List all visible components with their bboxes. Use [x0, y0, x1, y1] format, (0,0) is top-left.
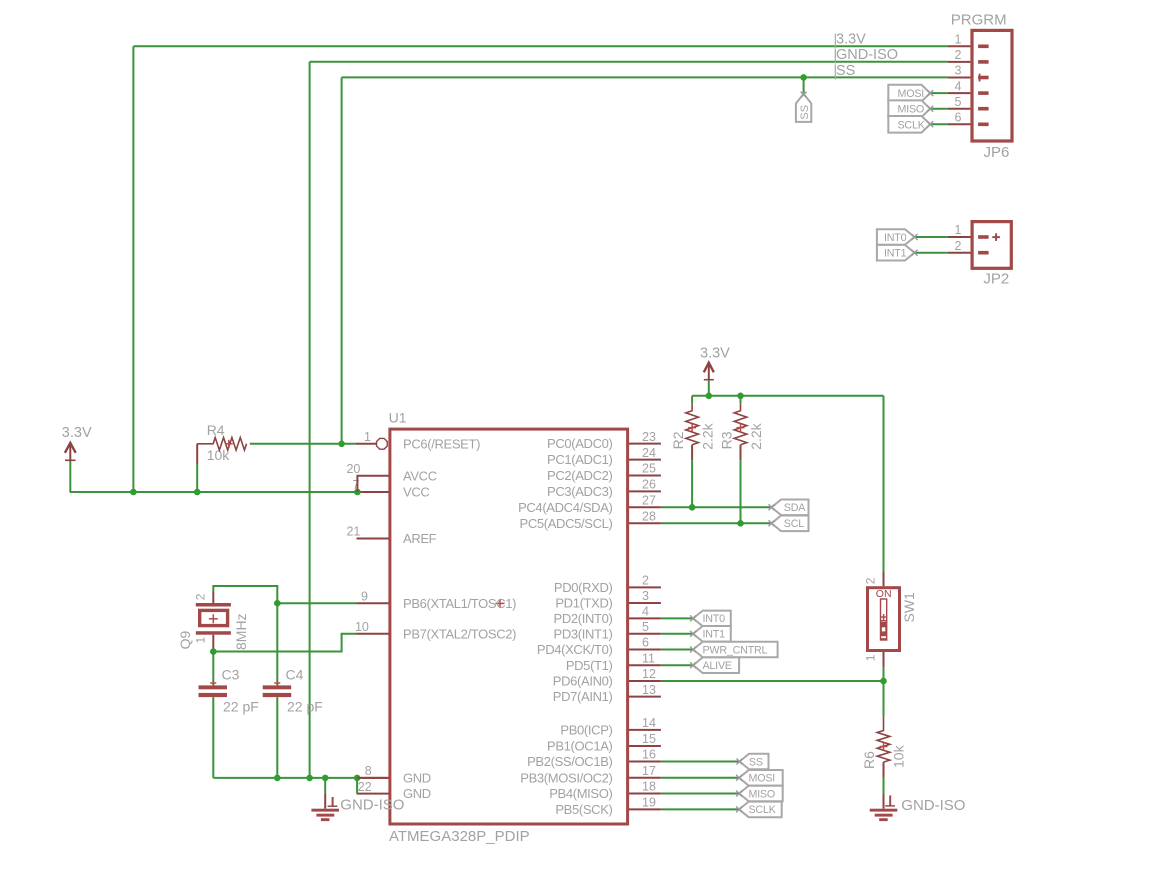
svg-text:SCLK: SCLK: [749, 804, 777, 816]
svg-text:2: 2: [955, 48, 962, 62]
svg-text:PD5(T1): PD5(T1): [566, 658, 613, 673]
svg-text:SW1: SW1: [901, 592, 917, 623]
svg-text:26: 26: [642, 478, 656, 492]
svg-text:PD7(AIN1): PD7(AIN1): [553, 689, 613, 704]
svg-text:PD6(AIN0): PD6(AIN0): [553, 674, 613, 689]
svg-text:PC1(ADC1): PC1(ADC1): [547, 452, 612, 467]
svg-text:2.2k: 2.2k: [700, 422, 716, 449]
svg-text:PD3(INT1): PD3(INT1): [554, 626, 613, 641]
svg-text:INT0: INT0: [884, 232, 907, 244]
svg-text:PC0(ADC0): PC0(ADC0): [547, 436, 612, 451]
svg-text:1: 1: [864, 654, 878, 661]
svg-text:PC5(ADC5/SCL): PC5(ADC5/SCL): [520, 516, 613, 531]
svg-text:MISO: MISO: [749, 788, 776, 800]
svg-text:3.3V: 3.3V: [700, 345, 730, 361]
svg-text:2: 2: [864, 577, 878, 584]
svg-text:2: 2: [642, 574, 649, 588]
svg-text:PB5(SCK): PB5(SCK): [555, 802, 612, 817]
svg-text:6: 6: [642, 636, 649, 650]
svg-text:VCC: VCC: [403, 485, 429, 500]
svg-text:12: 12: [642, 667, 656, 681]
svg-text:MOSI: MOSI: [898, 88, 925, 100]
svg-text:PB6(XTAL1/TOSC1): PB6(XTAL1/TOSC1): [403, 596, 516, 611]
svg-text:3: 3: [642, 589, 649, 603]
svg-text:R3: R3: [719, 431, 735, 449]
svg-text:SDA: SDA: [784, 502, 806, 514]
svg-text:MOSI: MOSI: [749, 773, 776, 785]
svg-text:PC6(/RESET): PC6(/RESET): [403, 436, 480, 451]
svg-text:15: 15: [642, 732, 656, 746]
svg-text:4: 4: [642, 605, 649, 619]
svg-text:SS: SS: [799, 105, 811, 120]
svg-text:8: 8: [365, 764, 372, 778]
svg-text:INT1: INT1: [703, 629, 726, 641]
svg-text:1: 1: [955, 33, 962, 47]
svg-text:4: 4: [955, 79, 962, 93]
svg-text:R4: R4: [207, 422, 225, 438]
svg-text:PRGRM: PRGRM: [951, 12, 1007, 29]
svg-text:SS: SS: [836, 63, 855, 79]
svg-text:PC3(ADC3): PC3(ADC3): [547, 484, 612, 499]
svg-text:10: 10: [355, 620, 369, 634]
svg-text:2: 2: [194, 593, 208, 600]
svg-text:GND-ISO: GND-ISO: [836, 47, 898, 63]
svg-text:SS: SS: [749, 756, 763, 768]
svg-text:PB4(MISO): PB4(MISO): [549, 786, 612, 801]
svg-text:JP6: JP6: [984, 144, 1010, 161]
svg-text:10k: 10k: [891, 744, 907, 768]
svg-text:1: 1: [194, 637, 208, 644]
svg-text:20: 20: [346, 462, 360, 476]
svg-text:MISO: MISO: [898, 104, 925, 116]
svg-text:U1: U1: [389, 409, 407, 425]
svg-text:2: 2: [955, 239, 962, 253]
svg-text:PB2(SS/OC1B): PB2(SS/OC1B): [527, 754, 612, 769]
svg-text:28: 28: [642, 510, 656, 524]
svg-text:R2: R2: [670, 431, 686, 449]
svg-text:PB7(XTAL2/TOSC2): PB7(XTAL2/TOSC2): [403, 626, 516, 641]
svg-text:SCLK: SCLK: [898, 119, 926, 131]
svg-text:24: 24: [642, 446, 656, 460]
svg-text:3.3V: 3.3V: [836, 31, 866, 47]
svg-text:6: 6: [955, 111, 962, 125]
svg-text:AREF: AREF: [403, 531, 437, 546]
svg-text:17: 17: [642, 764, 656, 778]
svg-text:PWR_CNTRL: PWR_CNTRL: [703, 644, 768, 656]
svg-text:3.3V: 3.3V: [62, 425, 92, 441]
svg-text:18: 18: [642, 780, 656, 794]
svg-text:PC2(ADC2): PC2(ADC2): [547, 468, 612, 483]
svg-text:5: 5: [642, 620, 649, 634]
svg-text:ALIVE: ALIVE: [703, 660, 732, 672]
svg-text:ON: ON: [876, 588, 892, 600]
svg-text:5: 5: [955, 95, 962, 109]
svg-text:AVCC: AVCC: [403, 468, 437, 483]
svg-text:11: 11: [642, 651, 655, 665]
svg-text:PD4(XCK/T0): PD4(XCK/T0): [537, 642, 613, 657]
svg-text:Q9: Q9: [177, 631, 193, 650]
svg-text:GND: GND: [403, 786, 431, 801]
svg-text:14: 14: [642, 716, 656, 730]
svg-text:PB1(OC1A): PB1(OC1A): [547, 739, 613, 754]
svg-text:PD0(RXD): PD0(RXD): [554, 580, 613, 595]
svg-text:PB0(ICP): PB0(ICP): [560, 723, 612, 738]
svg-text:22 pF: 22 pF: [223, 698, 259, 714]
svg-text:22: 22: [358, 780, 372, 794]
svg-text:GND-ISO: GND-ISO: [340, 796, 404, 813]
svg-text:25: 25: [642, 462, 656, 476]
svg-text:R6: R6: [861, 751, 877, 769]
svg-text:19: 19: [642, 796, 656, 810]
svg-text:PD1(TXD): PD1(TXD): [555, 596, 612, 611]
svg-text:22 pF: 22 pF: [287, 698, 323, 714]
svg-text:16: 16: [642, 748, 656, 762]
svg-text:INT0: INT0: [703, 613, 726, 625]
svg-text:GND: GND: [403, 771, 431, 786]
svg-text:PB3(MOSI/OC2): PB3(MOSI/OC2): [520, 770, 612, 785]
svg-text:2.2k: 2.2k: [748, 422, 764, 449]
svg-text:8MHz: 8MHz: [233, 613, 249, 650]
svg-text:27: 27: [642, 494, 656, 508]
svg-text:3: 3: [955, 64, 962, 78]
svg-text:INT1: INT1: [884, 248, 907, 260]
svg-text:SCL: SCL: [784, 518, 804, 530]
svg-text:C3: C3: [222, 666, 240, 682]
svg-text:21: 21: [346, 525, 360, 539]
svg-text:9: 9: [361, 589, 368, 603]
svg-text:1: 1: [364, 430, 371, 444]
svg-text:PC4(ADC4/SDA): PC4(ADC4/SDA): [518, 500, 612, 515]
svg-text:1: 1: [955, 223, 962, 237]
svg-text:PD2(INT0): PD2(INT0): [554, 611, 613, 626]
svg-text:JP2: JP2: [983, 271, 1009, 288]
svg-text:GND-ISO: GND-ISO: [901, 797, 965, 814]
svg-text:C4: C4: [286, 666, 304, 682]
svg-text:23: 23: [642, 430, 656, 444]
svg-text:ATMEGA328P_PDIP: ATMEGA328P_PDIP: [389, 828, 530, 845]
svg-text:13: 13: [642, 683, 656, 697]
